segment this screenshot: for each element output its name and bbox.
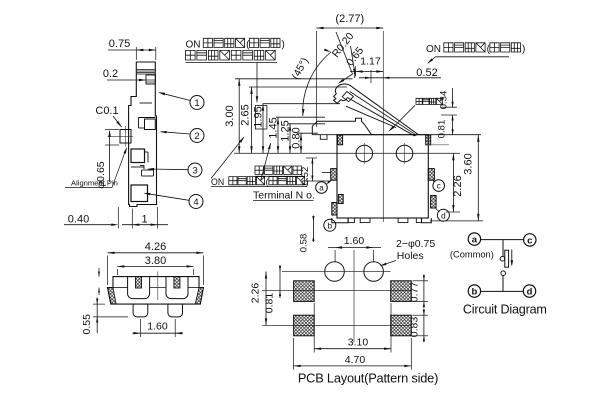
front view bottom pins [133,304,182,317]
svg-text:0.77: 0.77 [409,282,421,303]
level line 2.65 [249,86,347,88]
switch moving contact [500,250,513,268]
label ON initial position (horizontal) top-right [426,43,525,64]
svg-text:Circuit Diagram: Circuit Diagram [463,302,547,316]
balloon d (body) [436,209,450,222]
body top edge line [312,134,481,136]
svg-text:): ) [522,44,525,55]
svg-text:1: 1 [141,214,147,226]
pcb pad top-left [294,281,315,302]
dim 0.75 [108,38,156,60]
body vertical centerline [382,31,384,222]
pcb hole centerline horizontal [282,271,391,273]
boss hole left [356,143,373,164]
svg-text:3.80: 3.80 [145,255,166,267]
dim 0.2 leader [103,68,146,81]
leader from reference text down to 1.95 level [256,63,258,104]
dim 3.10 [314,303,391,353]
svg-text:0.81: 0.81 [437,120,448,139]
pcb hole right [364,262,384,282]
label (Common) [450,250,494,260]
svg-text:ON: ON [426,44,444,55]
circuit terminal d [523,285,535,298]
svg-text:Alignment Pin: Alignment Pin [71,179,118,188]
label Terminal No. [253,189,315,201]
side view: alignment pin [107,126,133,147]
level line 1.95 [263,103,341,105]
dim (45 deg) with arc [290,49,331,117]
svg-text:0.55: 0.55 [81,314,93,335]
dim 3.60 right [430,135,483,221]
side view: boss serration lines [137,70,155,75]
dim 0.34 [439,88,454,109]
svg-text:4.70: 4.70 [345,354,366,366]
wire down from a-c [502,240,504,256]
dim (2.77) [317,13,384,127]
svg-text:0.75: 0.75 [109,38,130,50]
body square outline [337,135,428,218]
wire b-d [481,290,524,292]
dim 4.26 [108,241,204,285]
wire a-c [481,239,524,241]
dim 0.55 [81,298,128,335]
lever arm (rotated 45) [333,84,417,136]
dim 4.70 [294,338,412,370]
svg-text:4.26: 4.26 [145,241,166,253]
pcb pad row centerlines [262,291,412,326]
level line 3.00 [235,78,353,80]
svg-text:Holes: Holes [397,250,424,262]
level line 0.80 [297,132,318,134]
small arrows top-left flange [98,268,100,295]
leader from ON vertical label up to 2.65 dim [211,136,245,178]
front view centerline [157,272,159,301]
svg-text:4: 4 [193,197,198,208]
front view body outline [108,277,204,305]
dim 0.52 top right [354,67,441,83]
svg-text:C0.1: C0.1 [95,105,118,117]
pcb pad bottom-right [391,315,412,336]
svg-text:b: b [471,287,477,298]
svg-text:2.26: 2.26 [250,283,262,304]
balloon c (body) [432,180,445,192]
body top area: upper-left ledge profile [312,118,371,139]
svg-text:3: 3 [192,166,197,177]
dim C0.1 leader [95,105,121,127]
svg-text:0.40: 0.40 [68,214,89,226]
boss hole right [396,143,413,164]
balloon 2 [160,129,204,143]
dim 3.80 [117,255,193,275]
leader 0.65 lever width [344,45,366,76]
dim 1.95 (boxed) [253,104,267,154]
caption Circuit Diagram [463,302,547,316]
svg-text:ON: ON [186,40,204,51]
front view corner flanges hatched [108,288,204,305]
dim 0.77 pcb [409,275,429,309]
svg-text:c: c [527,235,532,246]
svg-text:(Common): (Common) [450,250,494,260]
svg-text:a: a [472,235,478,246]
circuit terminal b [468,285,480,298]
dim 0.81 pcb [264,265,282,313]
dim 1.17 [350,56,383,77]
body feet and bottom terminal tips [332,218,432,223]
svg-text:3.00: 3.00 [224,105,236,126]
svg-text:c: c [437,182,441,191]
dim 0.81 right [426,115,457,145]
svg-text:(2.77): (2.77) [335,13,364,25]
pivot level line [441,106,457,108]
centerline through holes (baseline) [234,152,460,154]
svg-text:b: b [327,220,332,230]
svg-text:1: 1 [194,98,199,109]
side view: mid step [131,167,154,176]
svg-text:0.81: 0.81 [264,293,276,314]
svg-text:1.60: 1.60 [147,321,168,333]
side view: terminal 3 square [131,149,148,163]
side view: inner ledge line [140,102,153,104]
svg-text:d: d [527,287,533,298]
dim 2.65 [240,87,253,153]
svg-text:1.17: 1.17 [360,56,381,68]
dim 1.25 [280,120,292,153]
svg-text:2: 2 [194,131,199,142]
tick at full stroke level right of 0.52 [322,171,331,173]
svg-text:Terminal N o.: Terminal N o. [253,189,315,201]
level line 1.25 [288,123,326,125]
circuit terminal c [524,234,536,247]
label full stroke position (Chinese) [255,166,304,176]
side view: terminal 4 square [131,185,148,202]
leader R0.20 [330,30,357,84]
svg-text:2.65: 2.65 [240,104,252,125]
svg-text:ON: ON [211,177,227,187]
circuit terminal a [468,233,480,246]
dim 1.60 front [133,319,184,337]
dim 1.60 (hole pitch, upper) [328,235,381,262]
front view slot right [166,277,188,299]
terminal d (right low) [431,196,437,209]
balloon 3 [140,163,202,177]
dim 2.26 pcb [250,272,268,326]
dim 0.52 left small [300,158,331,185]
pcb pad top-right [391,281,412,302]
dim 1.45 [268,117,280,153]
svg-text:a: a [319,184,324,193]
balloon a (body) [316,180,332,194]
label 2-phi0.75 Holes [380,238,436,266]
svg-text:(: ( [266,177,269,187]
svg-text:PCB Layout(Pattern side): PCB Layout(Pattern side) [298,370,438,385]
dim 3.00 [224,79,240,154]
dim 0.83 pcb [409,309,429,343]
dim 0.40 [64,207,118,229]
svg-text:3.60: 3.60 [463,153,475,174]
svg-text:): ) [282,40,285,51]
side view: step under boss (terminal 2 region) [139,118,156,130]
label ON initial position (vertical) Chinese [211,177,309,187]
pcb vertical centerline [353,250,355,343]
front view slot left [128,277,150,299]
dim 0.58 [299,216,315,253]
balloon 1 [158,92,204,109]
label Alignment Pin [65,147,127,188]
side view: boss notch with hatch [146,75,155,84]
label ON initial position (horizontal) + actuation force reference, top-left Chinese [186,38,285,62]
svg-text:0.58: 0.58 [299,234,310,253]
terminal top-left (cross-section) [338,135,343,145]
caption PCB Layout [298,370,438,385]
dim 0.80 [291,127,303,153]
balloon 4 [143,193,203,209]
svg-text:0.83: 0.83 [409,317,421,338]
pcb hole left [325,262,345,282]
terminal c (right mid) [428,169,434,181]
terminal a (left mid) [331,169,337,181]
dim 2.26 right [446,153,464,212]
pcb pad bottom-left [294,315,315,336]
svg-text:0.52: 0.52 [416,67,437,79]
svg-text:1.60: 1.60 [344,235,365,247]
svg-text:3.10: 3.10 [348,336,369,348]
svg-text:0.52: 0.52 [300,167,311,186]
svg-text:0.2: 0.2 [103,68,118,80]
leader from full stroke label up to 1.45 dim [261,142,271,180]
switch fixed contact [501,271,506,276]
label rotation centre (Chinese small) [388,98,442,131]
svg-text:2−φ0.75: 2−φ0.75 [396,238,435,250]
dim 1 (bottom width) [122,207,168,229]
slot pins hatched [136,277,180,288]
level line 1.45 [276,116,325,118]
dim phi 0.65 [95,130,119,189]
wire down to b-d [502,276,504,292]
svg-text:0.34: 0.34 [439,91,450,110]
terminal top-right (cross-section) [426,135,431,145]
svg-text:d: d [441,210,446,220]
side view: actuator boss outline [129,62,157,207]
balloon b (body) [324,219,336,231]
terminal b (left low) [332,195,343,216]
